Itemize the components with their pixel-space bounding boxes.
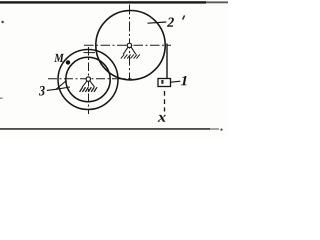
leader fork from label 3: [47, 81, 70, 91]
mark inside weight box: [161, 80, 163, 84]
pin of pulley 3: [86, 77, 90, 81]
leader to label 2: [148, 22, 167, 23]
weight 1 box: [158, 79, 171, 87]
centerline horizontal of pulley 3: [48, 78, 132, 80]
leader to label 1: [171, 81, 181, 82]
stray mark left edge lower: [0, 98, 3, 99]
rope from wheel 2 to weight 1: [166, 44, 168, 79]
support of pulley 3: triangle: [82, 81, 94, 87]
centerline vertical of pulley 3: [88, 47, 90, 114]
pin of wheel 2: [127, 43, 131, 47]
dashed x-axis line below weight: [164, 91, 166, 112]
wheel 2 rim: [96, 11, 165, 80]
label 2: [167, 18, 174, 27]
moment arrow dot: [66, 60, 70, 64]
support of pulley 3: hatching: [80, 87, 97, 92]
short dash on centerline: [84, 52, 96, 54]
label x: [158, 115, 166, 122]
label M: [54, 54, 64, 62]
frame bottom line: [0, 128, 223, 131]
label 3: [39, 86, 45, 96]
frame top line: [0, 1, 228, 3]
pulley 3 inner rim: [66, 57, 110, 101]
centerline vertical of wheel 2: [129, 5, 131, 80]
label 1: [181, 76, 187, 85]
pulley 3 outer rim: [58, 50, 118, 110]
prime mark after 2: [183, 15, 185, 19]
support of wheel 2: hatching: [121, 54, 140, 58]
support of wheel 2: triangle: [123, 47, 136, 54]
stray dot left margin: [1, 21, 3, 23]
centerline horizontal of wheel 2: [84, 44, 171, 46]
